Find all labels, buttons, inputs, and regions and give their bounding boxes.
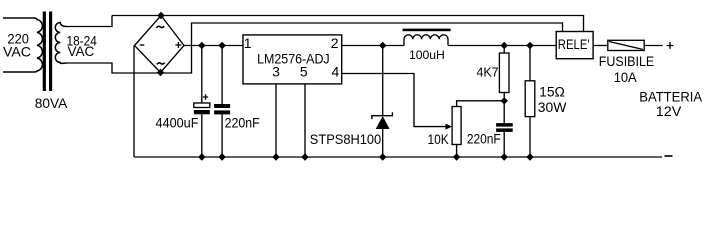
transformer T1 core xyxy=(43,12,53,92)
svg-text:VAC: VAC xyxy=(67,43,94,59)
node ground pin 5 xyxy=(301,153,308,160)
label 220 VAC xyxy=(3,31,31,60)
svg-text:4400uF: 4400uF xyxy=(156,114,199,130)
node ground C2 xyxy=(218,153,225,160)
svg-text:10K: 10K xyxy=(427,132,448,147)
wire secondary top to bridge xyxy=(67,16,113,27)
transformer T1 secondary winding xyxy=(55,23,66,64)
regulator U1 LM2576-ADJ xyxy=(243,35,342,84)
resistor R3 15 ohm 30W xyxy=(525,46,535,158)
svg-text:10A: 10A xyxy=(614,69,638,85)
node ground C3 xyxy=(501,153,508,160)
svg-text:220nF: 220nF xyxy=(467,131,501,147)
diode D2 STPS8H100 schottky xyxy=(372,46,393,158)
node bridge top corner xyxy=(157,12,164,19)
node diode top xyxy=(379,42,386,49)
wire inductor to relay xyxy=(448,45,556,47)
node bridge bottom corner xyxy=(157,69,164,76)
node ground C1 xyxy=(198,153,205,160)
battery plus mark xyxy=(667,42,674,49)
potentiometer R2 10K xyxy=(452,107,461,158)
svg-text:4: 4 xyxy=(332,63,340,79)
fuse F1 xyxy=(608,40,644,50)
battery minus mark xyxy=(665,155,673,157)
relay K1 xyxy=(556,32,593,59)
svg-text:30W: 30W xyxy=(538,100,567,115)
svg-text:VAC: VAC xyxy=(3,44,31,60)
svg-text:2: 2 xyxy=(331,35,339,51)
svg-text:220nF: 220nF xyxy=(225,115,260,131)
wire fuse to battery plus xyxy=(644,45,663,47)
wire bridge bottom to second top rail xyxy=(161,23,563,73)
svg-text:STPS8H100: STPS8H100 xyxy=(310,131,382,147)
svg-text:12V: 12V xyxy=(656,104,682,119)
wire relay to fuse xyxy=(593,45,608,47)
bridge AC mark top xyxy=(156,26,164,28)
label 18-24 VAC xyxy=(67,33,97,59)
svg-text:BATTERIA: BATTERIA xyxy=(639,89,703,105)
svg-text:LM2576-ADJ: LM2576-ADJ xyxy=(257,50,330,66)
bridge minus mark xyxy=(140,44,145,46)
capacitor C2 220nF xyxy=(214,46,230,158)
wire top rail to relay xyxy=(112,16,584,32)
transformer T1 primary winding xyxy=(3,18,42,72)
bridge plus mark xyxy=(175,42,181,48)
svg-text:1: 1 xyxy=(244,35,252,51)
svg-text:FUSIBILE: FUSIBILE xyxy=(599,53,655,69)
wire bridge plus to regulator pin 1 xyxy=(184,45,243,47)
svg-text:RELE': RELE' xyxy=(558,36,590,52)
node C1 top xyxy=(198,42,205,49)
node ground diode xyxy=(379,153,386,160)
wire pin 3 to ground xyxy=(275,84,277,157)
wire pin 5 to ground xyxy=(304,84,306,157)
wiper arrowhead xyxy=(446,124,453,130)
node output divider top xyxy=(501,42,508,49)
wire secondary bottom xyxy=(67,63,161,73)
wire pin 4 feedback xyxy=(342,74,448,127)
svg-text:15Ω: 15Ω xyxy=(539,84,565,99)
node ground pot xyxy=(453,153,460,160)
svg-text:80VA: 80VA xyxy=(35,95,68,111)
node ground pin 3 xyxy=(272,153,279,160)
node C2 top xyxy=(218,42,225,49)
wire bridge minus to ground rail xyxy=(133,46,135,158)
svg-text:100uH: 100uH xyxy=(409,50,445,62)
resistor R1 4K7 xyxy=(499,46,509,101)
node output 15ohm top xyxy=(526,42,533,49)
wire pin 2 output xyxy=(342,45,404,47)
bridge rectifier D1 xyxy=(135,16,185,73)
capacitor C1 4400uF electrolytic xyxy=(194,46,210,158)
svg-text:4K7: 4K7 xyxy=(476,65,498,79)
ground rail xyxy=(134,156,662,158)
node ground 15ohm xyxy=(526,153,533,160)
capacitor C3 220nF xyxy=(496,101,513,157)
inductor L1 100uH xyxy=(403,29,451,46)
wire divider to pot top xyxy=(457,101,505,107)
node feedback divider xyxy=(501,97,508,104)
C1 plus mark xyxy=(203,94,208,99)
bridge AC mark bottom xyxy=(157,63,165,65)
